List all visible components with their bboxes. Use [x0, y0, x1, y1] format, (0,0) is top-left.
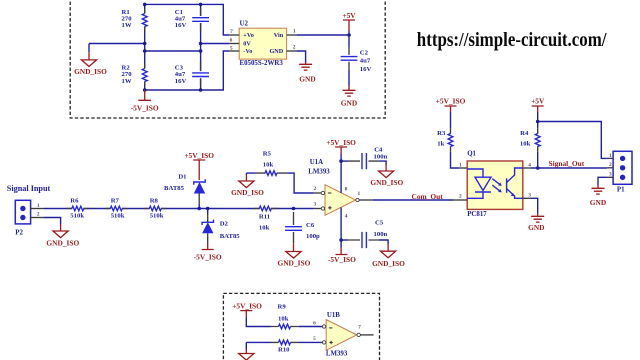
svg-text:6: 6 — [230, 38, 233, 44]
svg-text:+5V_ISO: +5V_ISO — [436, 97, 466, 106]
capacitor C2 — [341, 35, 372, 86]
power flag +5V_ISO U1B — [232, 302, 262, 318]
ground GND under C2 — [341, 86, 357, 107]
svg-text:U1A: U1A — [310, 159, 323, 166]
dashed isolation box bottom — [223, 293, 379, 360]
svg-text:510k: 510k — [111, 212, 125, 219]
svg-text:GND_ISO: GND_ISO — [46, 239, 79, 248]
power flag -5V_ISO — [131, 90, 159, 112]
svg-text:8: 8 — [345, 187, 348, 193]
svg-text:U1B: U1B — [327, 312, 340, 319]
svg-text:4u7: 4u7 — [360, 58, 371, 65]
svg-text:+5V: +5V — [531, 97, 545, 106]
wire pin3 to gnd — [531, 198, 538, 214]
svg-text:BAT85: BAT85 — [220, 233, 241, 240]
ground GND_ISO C6 — [277, 252, 310, 268]
pin 1 — [287, 29, 297, 35]
DC-DC converter U2 E0505S-2WR3 — [239, 20, 286, 67]
wire top rail +5V_ISO — [145, 4, 230, 35]
wire pin5 to bottom rail — [145, 51, 230, 90]
svg-text:7: 7 — [358, 325, 361, 331]
pin 2 — [287, 44, 297, 51]
svg-text:Signal Input: Signal Input — [7, 184, 51, 193]
power flag +5V_ISO U1A — [326, 138, 356, 161]
svg-text:1: 1 — [459, 163, 462, 169]
svg-text:C6: C6 — [306, 222, 315, 229]
svg-text:10k: 10k — [520, 141, 531, 148]
svg-text:U2: U2 — [240, 20, 249, 27]
svg-text:R5: R5 — [263, 150, 272, 157]
pin 6 — [229, 38, 239, 44]
svg-text:3: 3 — [528, 192, 531, 198]
svg-text:LM393: LM393 — [308, 168, 330, 175]
ground GND_ISO R5 — [231, 173, 264, 197]
svg-text:4: 4 — [345, 214, 348, 220]
power flag +5V_ISO R3 — [436, 97, 466, 112]
svg-text:3: 3 — [314, 202, 317, 208]
pin 5 U1B — [313, 336, 316, 342]
svg-text:+5V_ISO: +5V_ISO — [326, 138, 356, 147]
capacitor C1 — [175, 8, 210, 31]
wire R chain vertical — [144, 4, 146, 90]
wire main signal row — [44, 208, 314, 210]
pin 1 Q1 — [459, 163, 467, 169]
svg-text:2: 2 — [37, 211, 40, 217]
svg-text:GND_ISO: GND_ISO — [74, 67, 107, 76]
svg-text:LM393: LM393 — [326, 351, 348, 358]
svg-text:Vin: Vin — [274, 32, 284, 39]
power flag -5V_ISO U1A — [328, 240, 356, 264]
pin 2 U1A — [314, 186, 322, 193]
ground GND_ISO P2 — [46, 231, 79, 248]
svg-text:7: 7 — [230, 29, 233, 35]
ground GND pin2 — [299, 63, 316, 84]
pin 4 U1A — [341, 208, 348, 241]
pin 5 — [229, 46, 239, 52]
svg-text:10k: 10k — [263, 161, 274, 168]
optocoupler Q1 PC817 — [467, 151, 523, 218]
pin 2 P2 — [31, 211, 44, 217]
junction dots power box — [143, 3, 203, 92]
svg-text:R3: R3 — [437, 130, 446, 137]
svg-text:2: 2 — [314, 186, 317, 192]
resistor R2 — [122, 64, 149, 87]
pin 3 U1A — [314, 202, 322, 209]
svg-text:10k: 10k — [259, 224, 270, 231]
svg-text:GND: GND — [341, 98, 357, 107]
svg-text:6: 6 — [313, 321, 316, 327]
svg-text:R8: R8 — [150, 198, 159, 205]
svg-text:100n: 100n — [374, 231, 388, 238]
resistor R7 — [105, 198, 128, 220]
svg-text:+5V_ISO: +5V_ISO — [232, 302, 262, 311]
capacitor C3 — [175, 62, 210, 86]
text url — [417, 29, 607, 51]
resistor R10 — [246, 340, 322, 354]
wire 0V row right to pin6 — [201, 43, 230, 45]
wire P1 pin3 to gnd — [598, 177, 607, 185]
ground GND_ISO C4 — [370, 171, 403, 187]
svg-text:1: 1 — [358, 191, 361, 197]
svg-text:510k: 510k — [70, 212, 84, 219]
wire Signal_Out — [531, 159, 607, 170]
pin 7 U1B output — [358, 325, 373, 335]
resistor R5 — [246, 150, 313, 193]
wire C chain vertical — [200, 4, 202, 90]
capacitor C5 — [339, 219, 388, 251]
diode D1 BAT85 — [164, 173, 205, 204]
svg-text:1: 1 — [609, 153, 612, 159]
svg-text:-Vo: -Vo — [243, 48, 252, 55]
svg-text:10k: 10k — [278, 316, 289, 323]
svg-text:D1: D1 — [178, 173, 186, 180]
text Signal Input — [7, 184, 51, 193]
svg-text:R6: R6 — [70, 198, 79, 205]
pin 3 P1 — [607, 172, 613, 178]
power flag -5V_ISO D2 — [194, 243, 222, 262]
ground GND P1 — [590, 185, 606, 207]
svg-text:GND: GND — [590, 198, 606, 207]
wire pin2 to ground — [297, 51, 306, 63]
svg-text:510k: 510k — [150, 212, 164, 219]
resistor R9 — [246, 304, 322, 329]
svg-text:5: 5 — [230, 46, 233, 52]
svg-text:100n: 100n — [374, 153, 388, 160]
svg-text:GND_ISO: GND_ISO — [372, 259, 405, 268]
pin 1 P2 — [31, 203, 44, 209]
ground GND_ISO C5 — [372, 251, 405, 268]
svg-text:C5: C5 — [375, 219, 384, 226]
wire Com_Out — [373, 192, 454, 201]
pin 1 P1 — [607, 153, 613, 159]
node D1 — [197, 204, 201, 210]
svg-text:1: 1 — [37, 203, 40, 209]
capacitor C4 — [339, 147, 387, 172]
svg-text:C2: C2 — [360, 50, 369, 57]
svg-text:-5V_ISO: -5V_ISO — [328, 255, 356, 264]
svg-text:GND_ISO: GND_ISO — [370, 178, 403, 187]
op-amp U1A LM393 — [308, 159, 359, 215]
svg-text:3: 3 — [609, 172, 612, 178]
svg-text:R11: R11 — [259, 214, 270, 221]
svg-text:16V: 16V — [175, 22, 187, 29]
svg-text:2: 2 — [293, 44, 296, 50]
op-amp U1B LM393 — [322, 312, 360, 358]
svg-text:R7: R7 — [111, 198, 120, 205]
diode D2 BAT85 — [202, 207, 240, 243]
svg-text:D2: D2 — [220, 220, 229, 227]
dashed isolation box top — [70, 0, 385, 118]
svg-text:E0505S-2WR3: E0505S-2WR3 — [240, 60, 284, 67]
power flag +5V R4 — [531, 97, 545, 112]
svg-text:16V: 16V — [360, 66, 372, 73]
svg-text:2: 2 — [459, 194, 462, 200]
resistor R8 — [144, 198, 167, 220]
resistor R11 — [254, 205, 278, 231]
svg-text:-5V_ISO: -5V_ISO — [131, 103, 159, 112]
ground GND_ISO U1B — [239, 342, 254, 360]
ground GND_ISO left — [74, 44, 107, 77]
pin 2 Q1 — [454, 194, 467, 201]
svg-text:Com_Out: Com_Out — [412, 192, 444, 201]
svg-text:2: 2 — [609, 162, 612, 168]
pin 6 U1B — [313, 321, 316, 327]
svg-text:5: 5 — [313, 336, 316, 342]
svg-text:Q1: Q1 — [467, 151, 476, 158]
svg-text:100p: 100p — [306, 233, 320, 240]
svg-text:Signal_Out: Signal_Out — [549, 159, 585, 168]
ground GND Q1 — [528, 214, 544, 232]
pin 8 U1A — [341, 161, 348, 193]
wire pin1 to +5V node — [297, 33, 351, 37]
power flag +5V_ISO D1 — [184, 151, 214, 180]
svg-text:GND: GND — [269, 48, 283, 55]
resistor R3 — [437, 112, 459, 168]
svg-text:GND: GND — [299, 75, 315, 84]
pin 1 U1A output — [358, 191, 373, 200]
svg-text:P1: P1 — [617, 186, 625, 193]
pin 7 — [229, 29, 239, 35]
pin 2 P1 — [607, 162, 613, 168]
svg-text:https://simple-circuit.com/: https://simple-circuit.com/ — [417, 29, 607, 51]
pin 3 Q1 — [523, 192, 531, 198]
svg-text:R9: R9 — [278, 304, 287, 311]
connector P2 — [15, 200, 30, 236]
svg-text:+Vo: +Vo — [243, 32, 254, 39]
svg-text:PC817: PC817 — [467, 211, 487, 218]
connector P1 — [613, 151, 632, 193]
wire 0V row left — [89, 43, 145, 45]
power flag +5V — [342, 11, 356, 35]
svg-text:+5V: +5V — [342, 11, 356, 20]
svg-text:1: 1 — [293, 29, 296, 35]
svg-text:GND_ISO: GND_ISO — [231, 188, 264, 197]
pin 4 Q1 — [523, 163, 531, 169]
svg-text:GND: GND — [528, 223, 544, 232]
svg-text:0V: 0V — [243, 41, 251, 48]
node +5V branch to P1 — [536, 120, 607, 159]
svg-text:P2: P2 — [15, 229, 23, 236]
svg-text:1W: 1W — [122, 22, 132, 29]
svg-text:R10: R10 — [278, 347, 290, 354]
svg-text:1k: 1k — [437, 141, 444, 148]
wire P2 pin2 to gnd — [44, 218, 61, 232]
svg-text:BAT85: BAT85 — [164, 185, 185, 192]
resistor R6 — [67, 198, 90, 220]
svg-text:+5V_ISO: +5V_ISO — [184, 151, 214, 160]
svg-text:16V: 16V — [175, 78, 187, 85]
svg-text:4: 4 — [528, 163, 531, 169]
resistor R4 — [520, 112, 540, 168]
resistor R1 — [122, 9, 149, 32]
svg-text:R4: R4 — [520, 130, 529, 137]
capacitor C6 — [285, 207, 320, 252]
svg-text:-5V_ISO: -5V_ISO — [194, 253, 222, 262]
wire mid row R-C link — [145, 50, 201, 52]
svg-text:GND_ISO: GND_ISO — [277, 259, 310, 268]
svg-text:1W: 1W — [122, 78, 132, 85]
